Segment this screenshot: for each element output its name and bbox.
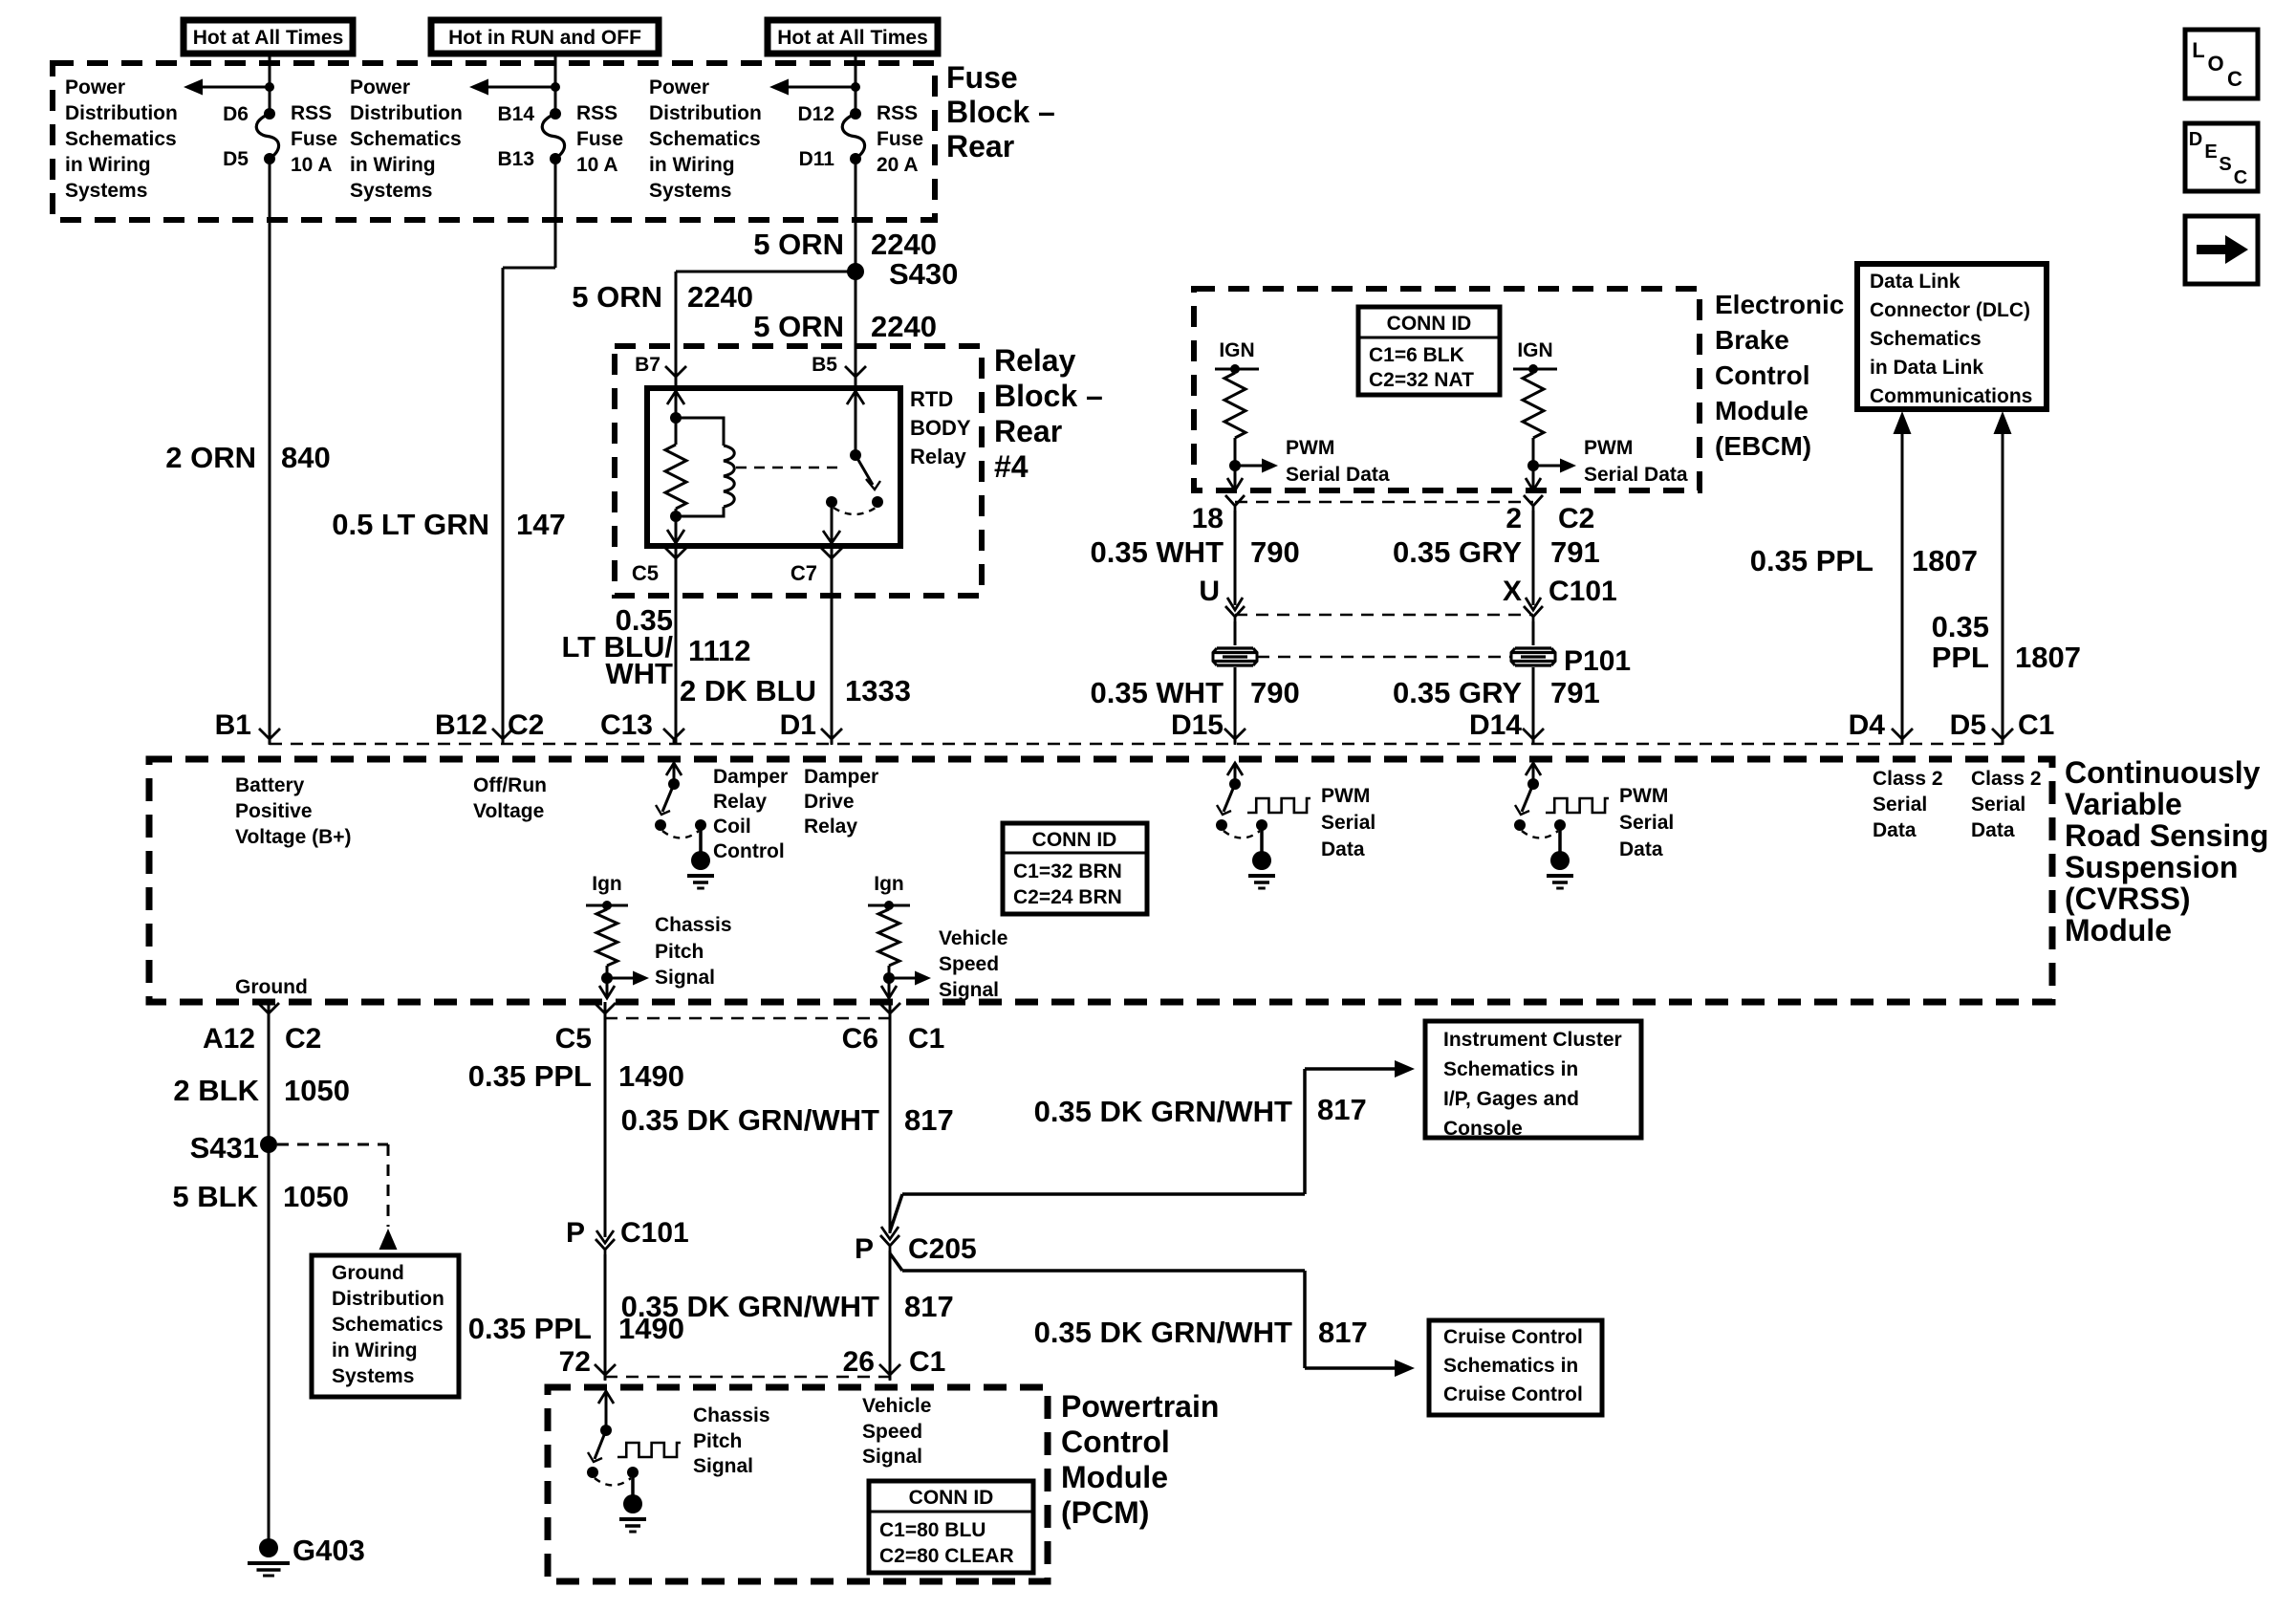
svg-text:C1: C1 [908,1023,944,1055]
svg-text:C2: C2 [1558,503,1594,534]
svg-text:C5: C5 [632,561,659,585]
svg-text:Serial Data: Serial Data [1286,464,1390,486]
svg-text:B14: B14 [497,103,534,125]
svg-text:Module: Module [1715,396,1809,425]
svg-text:Module: Module [2065,913,2172,947]
svg-text:Systems: Systems [649,180,731,202]
svg-text:Distribution: Distribution [65,102,178,124]
svg-text:RSS: RSS [291,102,332,124]
svg-text:Power: Power [649,76,709,98]
svg-text:C205: C205 [908,1233,977,1265]
svg-text:2 ORN: 2 ORN [165,441,256,474]
svg-text:0.35 DK GRN/WHT: 0.35 DK GRN/WHT [621,1290,879,1323]
svg-text:Data: Data [1321,838,1365,860]
svg-text:C1=32 BRN: C1=32 BRN [1013,860,1122,882]
svg-text:Systems: Systems [350,180,432,202]
svg-text:P: P [566,1217,585,1249]
svg-text:0.35 PPL: 0.35 PPL [1750,544,1874,577]
svg-text:D15: D15 [1171,709,1224,741]
svg-text:Console: Console [1443,1118,1523,1140]
svg-text:1807: 1807 [2015,641,2081,674]
svg-text:Signal: Signal [655,967,715,989]
svg-text:2240: 2240 [687,280,753,314]
svg-text:Data: Data [1619,838,1663,860]
svg-text:Schematics: Schematics [332,1314,444,1336]
svg-text:PWM: PWM [1286,437,1334,459]
svg-text:U: U [1199,576,1220,607]
svg-text:G403: G403 [292,1534,365,1567]
svg-text:CONN ID: CONN ID [1387,313,1472,335]
svg-text:C: C [2227,67,2242,91]
svg-text:817: 817 [1318,1316,1368,1349]
svg-text:Chassis: Chassis [693,1404,770,1426]
svg-text:in Wiring: in Wiring [649,154,735,176]
svg-text:0.35 DK GRN/WHT: 0.35 DK GRN/WHT [1034,1316,1292,1349]
svg-text:Coil: Coil [713,816,751,838]
svg-text:Schematics: Schematics [350,128,462,150]
svg-text:Class 2: Class 2 [1873,768,1943,790]
svg-text:D14: D14 [1469,709,1522,741]
svg-text:Systems: Systems [332,1365,414,1387]
svg-text:Instrument Cluster: Instrument Cluster [1443,1029,1622,1051]
svg-text:Off/Run: Off/Run [473,774,547,796]
svg-text:Speed: Speed [862,1421,922,1443]
svg-text:1050: 1050 [284,1074,350,1107]
svg-text:Data Link: Data Link [1870,271,1960,293]
svg-text:E: E [2204,142,2217,163]
svg-text:10 A: 10 A [576,154,618,176]
svg-text:Brake: Brake [1715,325,1789,355]
svg-text:0.35: 0.35 [1932,610,1989,643]
svg-text:Block –: Block – [994,379,1103,413]
svg-text:in Wiring: in Wiring [350,154,436,176]
svg-text:BODY: BODY [910,416,971,440]
svg-text:Signal: Signal [939,979,999,1001]
svg-text:B7: B7 [635,354,661,376]
svg-text:C6: C6 [842,1023,878,1055]
svg-text:Serial Data: Serial Data [1584,464,1688,486]
svg-text:O: O [2207,52,2223,76]
svg-text:Rear: Rear [994,414,1062,448]
svg-text:Voltage: Voltage [473,800,544,822]
svg-text:2240: 2240 [871,310,937,343]
svg-text:Power: Power [350,76,410,98]
svg-text:Hot at All Times: Hot at All Times [777,27,928,49]
svg-text:0.35 PPL: 0.35 PPL [468,1059,592,1093]
svg-text:Cruise Control: Cruise Control [1443,1326,1583,1348]
svg-text:Voltage (B+): Voltage (B+) [235,826,352,848]
svg-text:I/P, Gages and: I/P, Gages and [1443,1088,1579,1110]
svg-text:5 BLK: 5 BLK [172,1180,258,1213]
svg-text:Speed: Speed [939,953,999,975]
svg-text:in Data Link: in Data Link [1870,357,1983,379]
svg-text:0.35 GRY: 0.35 GRY [1393,535,1522,569]
svg-text:5 ORN: 5 ORN [753,228,844,261]
svg-text:IGN: IGN [1219,339,1254,361]
svg-text:Schematics in: Schematics in [1443,1058,1578,1080]
svg-text:P101: P101 [1564,645,1631,677]
svg-text:Pitch: Pitch [693,1430,742,1452]
svg-text:Control: Control [713,840,785,862]
svg-text:26: 26 [843,1346,875,1378]
svg-text:Drive: Drive [804,791,855,813]
svg-text:817: 817 [904,1290,954,1323]
svg-text:X: X [1503,576,1522,607]
svg-text:Relay: Relay [994,343,1076,378]
svg-text:C1=80 BLU: C1=80 BLU [879,1519,986,1541]
svg-text:Continuously: Continuously [2065,755,2261,790]
svg-text:C: C [2234,167,2247,188]
svg-text:Block –: Block – [946,95,1055,129]
svg-text:Chassis: Chassis [655,914,732,936]
svg-text:Damper: Damper [804,766,878,788]
svg-text:D4: D4 [1849,709,1886,741]
svg-text:Cruise Control: Cruise Control [1443,1383,1583,1405]
svg-text:1112: 1112 [688,634,751,667]
svg-text:L: L [2192,38,2204,62]
svg-text:(PCM): (PCM) [1061,1495,1149,1530]
svg-text:Distribution: Distribution [649,102,762,124]
svg-text:Schematics: Schematics [65,128,177,150]
svg-text:0.35 GRY: 0.35 GRY [1393,676,1522,709]
svg-text:Ground: Ground [332,1262,404,1284]
svg-text:Hot at All Times: Hot at All Times [193,27,344,49]
svg-text:5 ORN: 5 ORN [572,280,662,314]
svg-text:2 BLK: 2 BLK [173,1074,259,1107]
svg-text:0.35 DK GRN/WHT: 0.35 DK GRN/WHT [621,1103,879,1137]
svg-text:in Wiring: in Wiring [65,154,151,176]
svg-text:1333: 1333 [845,674,911,708]
svg-text:Relay: Relay [804,816,857,838]
svg-text:0.35 WHT: 0.35 WHT [1090,535,1224,569]
svg-text:817: 817 [904,1103,954,1137]
svg-text:D11: D11 [799,148,835,170]
svg-text:Serial: Serial [1873,794,1927,816]
svg-text:Data: Data [1873,819,1917,841]
svg-text:Rear: Rear [946,129,1014,163]
svg-text:C101: C101 [1549,576,1617,607]
svg-text:C2=32 NAT: C2=32 NAT [1369,369,1474,391]
svg-text:Data: Data [1971,819,2015,841]
svg-text:RSS: RSS [877,102,918,124]
svg-text:2: 2 [1505,503,1522,534]
svg-text:PWM: PWM [1321,785,1370,807]
svg-text:C2: C2 [508,709,544,741]
svg-text:2240: 2240 [871,228,937,261]
svg-text:(CVRSS): (CVRSS) [2065,882,2191,916]
svg-text:147: 147 [516,508,566,541]
svg-text:C13: C13 [600,709,653,741]
svg-text:Vehicle: Vehicle [862,1395,931,1417]
svg-text:Class 2: Class 2 [1971,768,2042,790]
svg-text:Relay: Relay [713,791,767,813]
svg-text:C2=24 BRN: C2=24 BRN [1013,886,1122,908]
svg-text:Electronic: Electronic [1715,290,1844,319]
svg-text:1807: 1807 [1912,544,1978,577]
svg-text:Connector (DLC): Connector (DLC) [1870,299,2030,321]
svg-text:18: 18 [1192,503,1224,534]
svg-text:C1: C1 [909,1346,945,1378]
svg-text:RTD: RTD [910,387,953,411]
svg-text:Control: Control [1061,1425,1170,1459]
svg-text:(EBCM): (EBCM) [1715,431,1811,461]
svg-text:C2=80 CLEAR: C2=80 CLEAR [879,1545,1014,1567]
svg-text:Fuse: Fuse [877,128,923,150]
svg-text:RSS: RSS [576,102,617,124]
svg-text:2 DK BLU: 2 DK BLU [680,674,816,708]
svg-text:Serial: Serial [1619,812,1674,834]
svg-text:Relay: Relay [910,445,966,468]
svg-text:Schematics: Schematics [649,128,761,150]
svg-text:Signal: Signal [862,1446,922,1468]
svg-text:D1: D1 [780,709,816,741]
svg-text:Positive: Positive [235,800,313,822]
svg-text:Serial: Serial [1971,794,2025,816]
svg-text:0.35 PPL: 0.35 PPL [468,1312,592,1345]
svg-text:D5: D5 [223,148,249,170]
svg-text:Road Sensing: Road Sensing [2065,818,2268,853]
svg-text:S430: S430 [889,257,958,291]
svg-text:C7: C7 [791,561,817,585]
svg-text:Ign: Ign [592,873,622,895]
svg-text:Powertrain: Powertrain [1061,1389,1219,1424]
svg-text:Communications: Communications [1870,385,2032,407]
svg-text:CONN ID: CONN ID [1032,829,1117,851]
svg-text:791: 791 [1550,535,1600,569]
svg-text:817: 817 [1317,1093,1367,1126]
svg-text:Fuse: Fuse [291,128,337,150]
svg-text:0.35 WHT: 0.35 WHT [1090,676,1224,709]
svg-text:C2: C2 [285,1023,321,1055]
svg-text:Distribution: Distribution [332,1288,444,1310]
svg-text:Suspension: Suspension [2065,850,2238,884]
svg-text:Variable: Variable [2065,787,2182,821]
svg-text:5 ORN: 5 ORN [753,310,844,343]
svg-text:Module: Module [1061,1460,1168,1494]
svg-text:WHT: WHT [605,657,673,690]
svg-text:Power: Power [65,76,125,98]
svg-text:PWM: PWM [1584,437,1633,459]
svg-text:Serial: Serial [1321,812,1375,834]
svg-text:S431: S431 [190,1131,259,1165]
svg-text:Systems: Systems [65,180,147,202]
svg-text:Fuse: Fuse [576,128,623,150]
svg-text:PPL: PPL [1932,641,1989,674]
svg-text:C1=6 BLK: C1=6 BLK [1369,344,1464,366]
svg-text:S: S [2219,154,2231,175]
svg-text:B5: B5 [812,354,837,376]
svg-text:Vehicle: Vehicle [939,927,1007,949]
svg-text:72: 72 [559,1346,591,1378]
svg-text:0.5 LT GRN: 0.5 LT GRN [332,508,489,541]
svg-text:#4: #4 [994,449,1029,484]
svg-text:Fuse: Fuse [946,60,1018,95]
svg-text:10 A: 10 A [291,154,333,176]
svg-text:PWM: PWM [1619,785,1668,807]
svg-text:Schematics: Schematics [1870,328,1982,350]
svg-text:790: 790 [1250,535,1300,569]
svg-text:D: D [2189,129,2202,150]
svg-text:Ground: Ground [235,976,308,998]
svg-text:840: 840 [281,441,331,474]
svg-text:Distribution: Distribution [350,102,463,124]
svg-text:IGN: IGN [1517,339,1552,361]
svg-text:P: P [855,1233,874,1265]
svg-text:Ign: Ign [874,873,904,895]
svg-text:in Wiring: in Wiring [332,1339,418,1361]
svg-text:20 A: 20 A [877,154,919,176]
svg-text:B13: B13 [497,148,534,170]
svg-text:Signal: Signal [693,1455,753,1477]
svg-text:1490: 1490 [618,1059,684,1093]
svg-text:Schematics in: Schematics in [1443,1355,1578,1377]
svg-text:1050: 1050 [283,1180,349,1213]
svg-text:C5: C5 [555,1023,592,1055]
svg-text:CONN ID: CONN ID [909,1487,994,1509]
svg-text:D6: D6 [223,103,249,125]
svg-text:Hot in RUN and OFF: Hot in RUN and OFF [448,27,641,49]
svg-text:B12: B12 [435,709,487,741]
svg-text:791: 791 [1550,676,1600,709]
svg-text:B1: B1 [215,709,251,741]
svg-text:Damper: Damper [713,766,788,788]
svg-text:790: 790 [1250,676,1300,709]
svg-text:C1: C1 [2018,709,2054,741]
svg-text:C101: C101 [620,1217,689,1249]
svg-text:D5: D5 [1950,709,1986,741]
svg-text:Control: Control [1715,360,1810,390]
svg-text:Battery: Battery [235,774,305,796]
svg-text:D12: D12 [797,103,834,125]
svg-text:Pitch: Pitch [655,941,704,963]
svg-text:A12: A12 [203,1023,255,1055]
svg-text:0.35 DK GRN/WHT: 0.35 DK GRN/WHT [1034,1095,1292,1128]
